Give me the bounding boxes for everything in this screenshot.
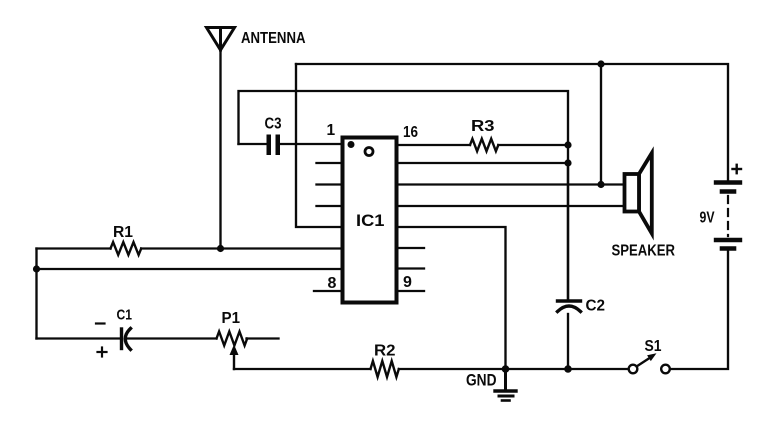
wire pin 14 to speaker xyxy=(397,183,625,185)
svg-text:P1: P1 xyxy=(222,310,241,327)
wire antenna lead xyxy=(219,50,221,249)
ground symbol xyxy=(495,369,516,401)
wire pin 12 to ground rail xyxy=(397,227,506,369)
resistor R3 xyxy=(470,139,498,151)
svg-text:ANTENNA: ANTENNA xyxy=(241,30,306,47)
svg-text:R3: R3 xyxy=(471,118,495,135)
wire branch V+ rail to speaker line xyxy=(600,64,602,185)
svg-text:9V: 9V xyxy=(700,210,715,227)
capacitor C3 xyxy=(267,135,281,156)
label C1 plus xyxy=(98,348,107,357)
capacitor C2 xyxy=(558,301,581,312)
wire IC pin 7 line xyxy=(37,268,343,270)
potentiometer P1 xyxy=(217,332,248,370)
wire left pin stub 4 xyxy=(317,205,343,207)
wire pin 9 stub xyxy=(397,290,424,292)
wire C3 top loop xyxy=(239,91,569,299)
pin marker circle xyxy=(365,148,373,156)
node speaker line junction xyxy=(597,181,604,188)
switch S1 xyxy=(629,353,670,373)
wire C2 upper lead xyxy=(567,163,569,299)
wire left rail to R1 xyxy=(37,247,111,249)
antenna symbol xyxy=(207,28,235,51)
node junction on V+ rail xyxy=(597,60,604,67)
label C1 minus xyxy=(96,322,105,324)
wire left pin stub 3 xyxy=(317,183,343,185)
node C2 rail junction xyxy=(564,365,572,373)
wire V+ top rail xyxy=(296,64,728,181)
node antenna to R1 line junction xyxy=(217,245,224,252)
wire C1 left lead xyxy=(37,337,120,339)
wire C1 to P1 xyxy=(127,337,217,339)
speaker xyxy=(625,153,652,234)
wire C3 to IC pin 1 xyxy=(239,143,343,145)
IC1 body xyxy=(343,138,397,303)
wire right pin stub 10 xyxy=(397,267,424,269)
wire V+ rail to IC pin 5 xyxy=(296,64,342,227)
wire left vertical rail xyxy=(35,249,37,339)
wire pin 16 to R3 xyxy=(397,144,470,146)
pin 1 marker dot xyxy=(348,141,355,148)
node left rail junction xyxy=(33,265,40,272)
node R3 junction xyxy=(564,141,571,148)
svg-text:16: 16 xyxy=(403,124,418,141)
wire ground rail left xyxy=(234,368,371,370)
wire C2 lower lead xyxy=(567,314,569,369)
wire R3 to V+ node xyxy=(498,144,568,146)
svg-text:1: 1 xyxy=(327,122,336,139)
svg-text:IC1: IC1 xyxy=(356,212,385,230)
resistor R2 xyxy=(371,361,399,377)
svg-text:8: 8 xyxy=(328,275,337,292)
wire P1 unused end xyxy=(247,337,279,339)
wire left pin stub 2 xyxy=(317,162,343,164)
svg-text:R2: R2 xyxy=(374,343,396,360)
svg-text:GND: GND xyxy=(466,372,497,390)
battery B1 xyxy=(716,183,740,249)
label battery plus xyxy=(733,165,742,173)
svg-text:R1: R1 xyxy=(113,224,133,241)
svg-text:C3: C3 xyxy=(265,116,282,133)
wire S1 to battery minus xyxy=(670,251,728,369)
svg-text:C1: C1 xyxy=(117,307,133,324)
capacitor C1 xyxy=(122,329,131,350)
wire pin 8 stub xyxy=(314,290,342,292)
node pin 15 junction xyxy=(564,159,571,166)
wire right pin stub 11 xyxy=(397,247,424,249)
wire pin 13 to speaker xyxy=(397,205,625,207)
svg-text:9: 9 xyxy=(403,274,412,291)
svg-text:S1: S1 xyxy=(645,338,662,355)
wire R1 to IC pin 6 xyxy=(141,247,342,249)
resistor R1 xyxy=(111,242,142,255)
node ground junction xyxy=(502,365,510,373)
svg-text:SPEAKER: SPEAKER xyxy=(612,243,676,260)
wire ground rail right xyxy=(399,368,629,370)
svg-text:C2: C2 xyxy=(586,298,606,315)
wire pin 15 line xyxy=(397,162,568,164)
